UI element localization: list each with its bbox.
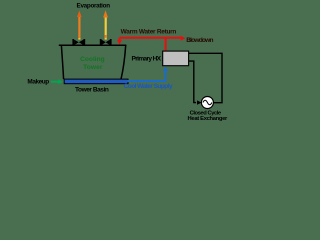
evaporation arrow 2 (yellow, up)	[103, 10, 108, 39]
svg-text:Tower Basin: Tower Basin	[75, 86, 109, 93]
svg-text:Evaporation: Evaporation	[77, 3, 111, 10]
svg-text:Primary HX: Primary HX	[132, 55, 162, 62]
svg-text:Blowdown: Blowdown	[186, 37, 213, 44]
red branch to blowdown	[167, 37, 182, 39]
blue horizontal from basin	[128, 80, 166, 82]
blue riser up to HX	[165, 70, 167, 82]
sine wave inside circle	[203, 100, 212, 104]
tower basin (blue bar)	[64, 79, 128, 84]
svg-text:Cooling: Cooling	[80, 56, 105, 63]
red elbow down into tower	[118, 38, 120, 41]
warm water return pipe (red)	[117, 36, 185, 52]
primary HX box (gray)	[163, 51, 189, 66]
blue arrowhead into HX bottom	[163, 66, 168, 71]
loop: HX right bottom, down to pump left side	[189, 61, 196, 103]
pump / closed cycle HX circle	[201, 97, 213, 109]
tower right wall	[121, 45, 126, 79]
svg-text:Heat Exchanger: Heat Exchanger	[188, 116, 228, 122]
evaporation arrow 1 (orange, up)	[77, 11, 82, 40]
cool water supply pipe (blue)	[128, 66, 169, 82]
loop: HX right top, right and down to pump right side	[189, 53, 222, 102]
closed cycle loop piping (black)	[189, 53, 222, 102]
tower top edge	[59, 44, 127, 46]
arrowhead into pump circle	[197, 100, 202, 104]
blowdown arrowhead (right)	[181, 36, 186, 41]
svg-text:Cool Water Supply: Cool Water Supply	[124, 83, 173, 90]
cooling tower shell	[59, 45, 127, 79]
svg-text:Tower: Tower	[83, 64, 103, 71]
tower left wall	[61, 45, 63, 79]
makeup arrow (green, right)	[51, 79, 63, 84]
svg-text:Warm Water Return: Warm Water Return	[121, 29, 177, 36]
red drop into primary HX	[165, 38, 167, 52]
red arrowhead into tower	[117, 40, 122, 45]
svg-text:Makeup: Makeup	[27, 78, 49, 85]
valve V1 (bowtie on tower top)	[72, 39, 85, 45]
red horizontal pipe	[120, 37, 167, 39]
valve V2 (bowtie on tower top)	[100, 39, 112, 45]
